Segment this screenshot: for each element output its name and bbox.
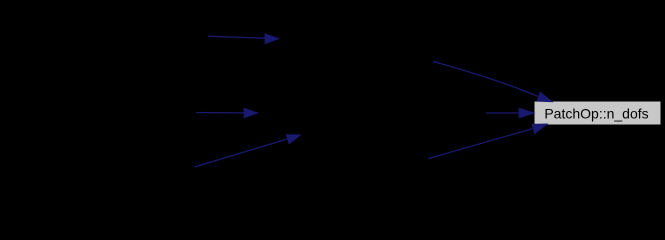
svg-text:PatchOp::n_dofs: PatchOp::n_dofs bbox=[544, 105, 648, 121]
